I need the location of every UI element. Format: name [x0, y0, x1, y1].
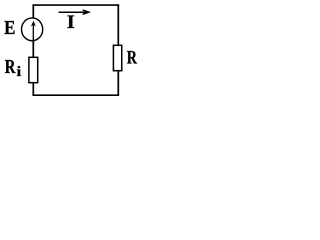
resistor Ri box	[29, 57, 38, 82]
wire bottom rail	[33, 94, 120, 96]
wire right bottom segment	[117, 71, 119, 96]
label I	[67, 16, 74, 29]
current arrowhead	[83, 10, 89, 14]
wire left bottom segment	[32, 83, 34, 96]
wire left top segment	[32, 5, 34, 19]
label R of Ri	[5, 60, 16, 73]
source arrow shaft	[32, 25, 34, 41]
label E	[5, 21, 15, 34]
wire top rail	[33, 4, 120, 6]
source E circle	[21, 18, 42, 41]
resistor R box	[113, 45, 121, 70]
label i subscript of Ri	[17, 66, 21, 76]
label R (right resistor)	[127, 51, 137, 64]
wire right top segment	[117, 5, 119, 46]
source arrowhead	[31, 21, 36, 27]
current arrow I shaft	[59, 11, 89, 13]
wire left mid segment	[32, 40, 34, 57]
